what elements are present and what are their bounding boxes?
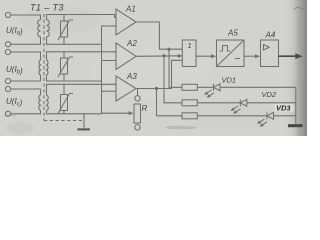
svg-text:U(Ic): U(Ic) — [6, 97, 23, 108]
junction dot A3 branch — [155, 87, 157, 89]
wire VD3 to bus — [274, 115, 296, 117]
wire ch1 primary bottom — [11, 37, 41, 45]
A5 pulse symbol — [220, 46, 231, 52]
wire ch2 primary top — [11, 52, 41, 60]
wire R2 to VD2 — [197, 102, 240, 104]
bottom-left faint mark — [4, 115, 16, 116]
transformer T1 primary winding — [38, 20, 41, 37]
pencil squiggle top right — [294, 7, 306, 10]
op-amp A2 — [116, 43, 136, 70]
transformer T3 primary winding — [39, 95, 41, 111]
output arrow thick — [279, 55, 298, 57]
potentiometer R body — [134, 104, 141, 123]
LED VD2 — [239, 99, 241, 106]
wire A5 output arrow — [244, 55, 256, 57]
ink blot on A2 wire — [178, 55, 180, 57]
svg-text:R: R — [142, 104, 148, 113]
common input bus — [101, 26, 103, 114]
svg-text:A5: A5 — [227, 29, 238, 38]
wire ch1 secondary top — [47, 15, 117, 20]
resistor R1 — [182, 84, 197, 90]
wire R1 to VD1 — [197, 86, 213, 88]
right ground bus — [295, 87, 297, 124]
A5 minus sign — [235, 58, 240, 60]
wire ch2 secondary top — [47, 52, 117, 60]
potentiometer R bottom terminal — [135, 125, 140, 130]
wire ch3 primary bottom — [11, 111, 41, 114]
dashed screen bottom — [44, 120, 84, 122]
VD1 light arrows — [204, 90, 214, 98]
svg-text:A2: A2 — [126, 39, 137, 48]
resistor R3 — [182, 113, 197, 119]
wire VD2 to bus — [247, 102, 296, 104]
transformer T3 secondary winding — [47, 95, 49, 111]
ground symbol left — [78, 128, 91, 130]
wire A2 output — [136, 55, 182, 58]
wire R3 to VD3 — [197, 115, 267, 117]
VD2 light arrows — [231, 106, 241, 114]
LED VD3 — [266, 112, 268, 119]
wire branch to VD3 row — [157, 89, 183, 116]
svg-text:U(Ib): U(Ib) — [6, 65, 23, 76]
paper mottling — [20, 6, 100, 34]
op-amp A3 — [116, 76, 136, 101]
wire ch2 secondary bottom — [47, 75, 102, 81]
resistor R2 — [182, 100, 197, 106]
output amplifier A4 box — [261, 40, 279, 67]
terminal circle ch2 top — [5, 49, 10, 54]
terminal circle ch3 bottom — [5, 111, 10, 116]
OR gate D1 box — [182, 40, 196, 67]
varistor RU2 — [61, 58, 68, 74]
A4 amplifier symbol — [264, 45, 270, 51]
junction dot A1 branch — [168, 48, 170, 50]
junction dot A2 branch — [163, 55, 165, 57]
transformer T2 secondary winding — [47, 60, 49, 75]
terminal circle ch1 bottom — [5, 42, 10, 47]
potentiometer R wiper arrow — [102, 112, 130, 114]
wire ch3 primary top — [11, 89, 41, 95]
svg-text:VD2: VD2 — [262, 90, 277, 99]
LED VD1 — [213, 84, 215, 91]
svg-text:U(Ia): U(Ia) — [6, 26, 23, 37]
op-amp A1 — [116, 9, 136, 35]
wire branch to VD1 row — [169, 49, 182, 87]
wire OR output arrow — [196, 55, 213, 57]
wire A3 inverting input — [102, 90, 117, 92]
wire branch to VD2 row — [164, 56, 182, 103]
wire ch3 secondary top — [47, 84, 117, 95]
terminal circle ch1 top — [5, 12, 10, 17]
right scan shadow band — [282, 0, 307, 136]
paper background — [0, 0, 307, 136]
potentiometer R stub — [137, 89, 139, 96]
ground symbol right — [288, 124, 303, 127]
wire ch1 secondary bottom — [47, 37, 102, 45]
wire VD1 to bus — [220, 86, 296, 88]
transformer T2 primary winding — [39, 60, 41, 75]
ground wire left — [83, 114, 85, 129]
svg-text:A1: A1 — [125, 5, 136, 14]
wire A1 inverting input — [102, 25, 117, 27]
svg-text:T1 – T3: T1 – T3 — [30, 3, 64, 13]
wire A2 inverting input — [102, 60, 117, 62]
svg-text:A4: A4 — [265, 31, 276, 40]
pulse shaper A5 box — [217, 40, 245, 67]
svg-text:1: 1 — [188, 41, 192, 50]
wire ch3 secondary bottom — [47, 111, 102, 114]
terminal circle ch3 top — [5, 86, 10, 91]
wire A3 output — [136, 60, 182, 88]
wire ch2 primary bottom — [11, 75, 41, 81]
label VD3 backdrop — [275, 104, 294, 112]
transformer T1 secondary winding — [47, 20, 50, 37]
varistor RU1 — [61, 21, 68, 37]
terminal circle ch2 bottom — [5, 78, 10, 83]
ghost smear below R3 — [165, 126, 197, 130]
VD3 light arrows — [257, 119, 267, 127]
wire ch1 primary top — [11, 15, 41, 20]
varistor RU3 — [61, 95, 68, 111]
potentiometer R top terminal — [135, 96, 140, 101]
svg-text:VD3: VD3 — [276, 104, 291, 113]
dashed screen line — [43, 14, 45, 121]
svg-text:A3: A3 — [126, 72, 137, 81]
svg-text:VD1: VD1 — [222, 76, 237, 85]
wire A1 output — [136, 22, 182, 49]
